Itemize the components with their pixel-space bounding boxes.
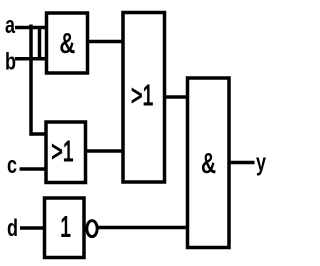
svg-text:&: & <box>59 28 75 60</box>
svg-text:a: a <box>5 13 15 39</box>
svg-text:y: y <box>256 150 266 176</box>
svg-text:&: & <box>201 148 216 180</box>
svg-text:c: c <box>7 153 17 179</box>
svg-text:>1: >1 <box>131 80 153 112</box>
svg-text:1: 1 <box>60 212 71 244</box>
svg-text:b: b <box>5 49 16 75</box>
svg-text:d: d <box>7 216 18 242</box>
svg-text:>1: >1 <box>51 136 73 168</box>
